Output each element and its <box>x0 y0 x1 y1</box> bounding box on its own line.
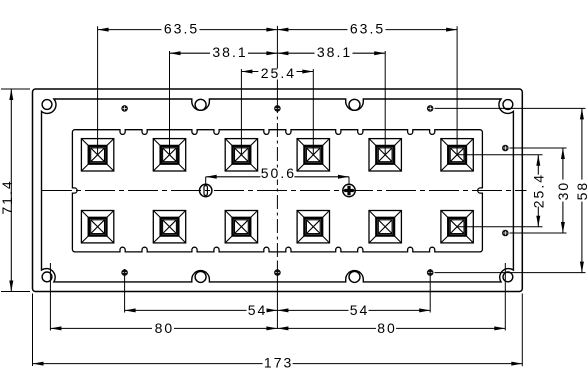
svg-text:63.5: 63.5 <box>164 20 199 36</box>
extension line lens row1 <box>457 154 542 156</box>
dimension 25.4 right <box>537 155 539 227</box>
corner mounting hole H1 <box>42 100 52 110</box>
screw slot S4 <box>349 271 360 282</box>
svg-text:80: 80 <box>155 320 175 336</box>
svg-text:25.4: 25.4 <box>261 65 296 81</box>
extension line col6 <box>456 26 458 155</box>
vertical centerline <box>276 26 278 99</box>
corner mounting hole H4 <box>503 272 513 282</box>
extension line board bottom <box>1 291 30 293</box>
extension line col3 <box>240 69 242 155</box>
svg-text:38.1: 38.1 <box>317 44 352 60</box>
svg-text:58: 58 <box>574 181 588 201</box>
extension line col4 <box>312 69 314 155</box>
lens L11 <box>369 211 401 243</box>
svg-text:71.4: 71.4 <box>0 179 15 214</box>
dimension 54 right <box>277 309 430 311</box>
dimension 63.5 right <box>277 29 457 31</box>
svg-text:54: 54 <box>248 302 268 318</box>
extension line lens row2 <box>457 226 542 228</box>
fiducial F6 <box>427 269 434 276</box>
fiducial F1 <box>121 105 128 112</box>
fiducial F5 <box>274 269 281 276</box>
dimension 54 left <box>125 309 278 311</box>
fiducial F4 <box>121 269 128 276</box>
svg-text:80: 80 <box>377 320 397 336</box>
dimension 63.5 left <box>98 29 278 31</box>
svg-text:50.6: 50.6 <box>261 165 296 181</box>
lens L7 <box>81 211 113 243</box>
lens L2 <box>153 139 185 171</box>
lens L1 <box>81 139 113 171</box>
lens plate outline <box>42 99 514 282</box>
horizontal centerline <box>42 190 527 192</box>
board outline (PCB 173x71.4) <box>33 89 523 292</box>
svg-text:30: 30 <box>555 181 571 201</box>
svg-text:38.1: 38.1 <box>212 44 247 60</box>
corner mounting hole H2 <box>503 100 513 110</box>
screw slot S2 <box>349 99 360 110</box>
lens L3 <box>225 139 257 171</box>
lens L9 <box>225 211 257 243</box>
fiducial F2 <box>274 105 281 112</box>
extension line board top <box>1 88 30 90</box>
extension line fid lower <box>435 272 586 274</box>
svg-text:25.4: 25.4 <box>530 173 546 208</box>
dimension 38.1 right <box>277 52 385 54</box>
dimension 30 <box>562 148 564 233</box>
extension line board left <box>32 294 34 367</box>
extension line fiducial left <box>124 269 126 313</box>
dimension 50.6 <box>206 176 278 178</box>
extension line col1 <box>97 26 99 155</box>
fiducial F8 <box>502 230 509 237</box>
lens L5 <box>369 139 401 171</box>
extension line hole left <box>49 263 51 331</box>
dimension 173 <box>33 363 523 365</box>
dimension 80 left <box>50 327 277 329</box>
dimension 25.4 top <box>241 71 258 73</box>
extension line fiducial right <box>429 269 431 313</box>
lens L6 <box>441 139 473 171</box>
dimension 38.1 left <box>170 52 278 54</box>
extension line fid upper <box>435 107 586 109</box>
center screw left (slot head) <box>200 184 212 196</box>
screw slot S1 <box>195 99 206 110</box>
lens L12 <box>441 211 473 243</box>
extension line dot upper <box>510 147 567 149</box>
lens array outline <box>72 130 482 252</box>
dimension 58 <box>581 108 583 272</box>
svg-text:54: 54 <box>350 302 370 318</box>
svg-text:63.5: 63.5 <box>350 20 385 36</box>
corner mounting hole H3 <box>42 272 52 282</box>
extension line hole right <box>504 263 506 331</box>
extension line dot lower <box>510 232 567 234</box>
lens L8 <box>153 211 185 243</box>
lens L4 <box>297 139 329 171</box>
dimension 71.4 <box>10 89 12 292</box>
center screw right (phillips head) <box>343 184 355 196</box>
svg-text:173: 173 <box>264 354 293 370</box>
fiducial F3 <box>427 105 434 112</box>
fiducial F7 <box>502 145 509 152</box>
screw slot S3 <box>195 271 206 282</box>
extension line col5 <box>384 51 386 155</box>
extension line col2 <box>169 51 171 155</box>
extension line board right <box>521 294 523 367</box>
dimension 80 right <box>277 327 505 329</box>
lens L10 <box>297 211 329 243</box>
